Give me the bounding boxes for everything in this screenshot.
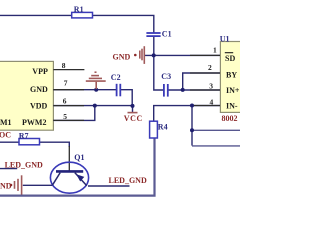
svg-text:PWM2: PWM2 <box>22 118 46 127</box>
svg-text:U1: U1 <box>220 34 230 43</box>
svg-text:3: 3 <box>209 81 213 90</box>
svg-text:5: 5 <box>63 112 67 121</box>
svg-text:VPP: VPP <box>32 67 48 76</box>
svg-text:7: 7 <box>64 78 68 87</box>
svg-text:8002: 8002 <box>222 114 238 123</box>
svg-text:6: 6 <box>63 97 67 106</box>
svg-text:GND: GND <box>113 53 131 62</box>
svg-text:M1: M1 <box>0 118 12 127</box>
svg-text:OC: OC <box>0 131 11 140</box>
svg-text:R1: R1 <box>74 5 84 14</box>
svg-text:VDD: VDD <box>30 102 48 111</box>
svg-text:IN-: IN- <box>226 102 238 111</box>
svg-text:BY: BY <box>226 70 237 79</box>
svg-text:GND: GND <box>30 85 48 94</box>
svg-text:C2: C2 <box>111 73 121 82</box>
svg-text:LED_GND: LED_GND <box>109 176 147 185</box>
svg-text:IN+: IN+ <box>226 86 240 95</box>
svg-text:4: 4 <box>210 98 214 107</box>
svg-text:VCC: VCC <box>124 114 143 123</box>
svg-text:8: 8 <box>62 61 66 70</box>
svg-text:C1: C1 <box>162 29 172 38</box>
svg-text:1: 1 <box>213 45 217 54</box>
svg-text:2: 2 <box>208 63 212 72</box>
svg-text:Q1: Q1 <box>74 153 84 162</box>
svg-text:SD: SD <box>225 54 235 63</box>
svg-text:LED_GND: LED_GND <box>5 160 43 169</box>
svg-text:ND: ND <box>0 181 12 190</box>
svg-text:R7: R7 <box>19 131 29 140</box>
svg-text:C3: C3 <box>161 72 171 81</box>
svg-text:R4: R4 <box>158 123 168 132</box>
